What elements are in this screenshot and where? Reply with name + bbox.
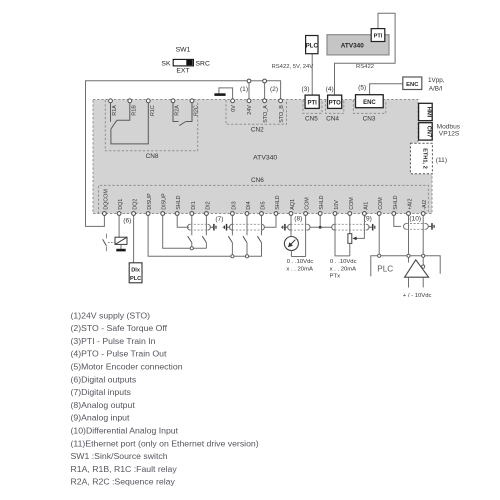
svg-text:R1B: R1B bbox=[132, 105, 138, 116]
svg-text:CN6: CN6 bbox=[251, 177, 264, 184]
wire DQ1 to relay coil bbox=[118, 216, 120, 238]
node on DI4 bus bbox=[245, 255, 248, 258]
svg-text:DI2: DI2 bbox=[205, 201, 211, 209]
DIx PLC box bbox=[129, 263, 142, 283]
relay R2 contact drawing bbox=[173, 103, 179, 122]
terminal SHLD c bbox=[318, 212, 322, 216]
svg-text:R1C: R1C bbox=[150, 105, 156, 116]
wire 24V up to jumper point bbox=[248, 83, 250, 98]
wire COM bbox=[378, 216, 380, 256]
svg-text:CN4: CN4 bbox=[326, 115, 339, 122]
connector CN8 (relay outputs) dashed box bbox=[105, 100, 197, 151]
svg-text:1Vpp,: 1Vpp, bbox=[428, 77, 445, 84]
wire AI1 wiper bbox=[356, 216, 364, 239]
terminal R2C bbox=[190, 99, 194, 103]
svg-text:AQ1: AQ1 bbox=[290, 199, 296, 210]
svg-text:DISUP: DISUP bbox=[162, 193, 168, 210]
svg-text:x . . 20mA: x . . 20mA bbox=[330, 266, 357, 272]
svg-text:(8)Analog output: (8)Analog output bbox=[71, 400, 136, 410]
svg-text:(5)Motor Encoder connection: (5)Motor Encoder connection bbox=[71, 362, 183, 372]
svg-text:RS422: RS422 bbox=[356, 64, 374, 70]
svg-text:(11)Ethernet port (only on Eth: (11)Ethernet port (only on Ethernet driv… bbox=[71, 438, 259, 448]
ATV340 box (second drive) bbox=[327, 35, 389, 55]
wire DISUP to DI3-DI5 common bus bbox=[148, 216, 262, 257]
svg-text:(5): (5) bbox=[358, 85, 366, 92]
svg-text:0V: 0V bbox=[231, 105, 237, 112]
svg-text:10V: 10V bbox=[334, 200, 340, 210]
svg-text:+AI2: +AI2 bbox=[408, 199, 414, 210]
svg-text:HMI: HMI bbox=[425, 107, 431, 118]
wire DI2 bbox=[205, 216, 207, 236]
terminal AI1 bbox=[363, 212, 367, 216]
terminal SHLD a bbox=[175, 212, 179, 216]
wire DI5 bbox=[261, 216, 263, 236]
ground symbol at 0V bbox=[214, 93, 225, 96]
CN7 connector box bbox=[419, 123, 433, 140]
svg-text:ENC: ENC bbox=[406, 82, 419, 88]
terminal STO_A bbox=[263, 99, 267, 103]
wire ENC connector CN3 to encoder bbox=[370, 84, 403, 95]
svg-text:DQCOM: DQCOM bbox=[103, 189, 109, 210]
svg-text:x . . 20mA: x . . 20mA bbox=[286, 266, 313, 272]
PLC box (pulse train source) bbox=[306, 36, 318, 54]
wire PTO connector CN4 to PTI module of second ATV340 bbox=[335, 13, 396, 95]
PTI module on second drive bbox=[371, 29, 385, 42]
terminal DI1 bbox=[190, 212, 194, 216]
wire jumper 24V to STO_A bbox=[249, 80, 265, 82]
svg-text:DQ2: DQ2 bbox=[133, 199, 139, 210]
PLC box (differential analog input) bbox=[371, 256, 440, 276]
svg-text:DI4: DI4 bbox=[246, 201, 252, 209]
terminal COM a bbox=[304, 212, 308, 216]
shielded cable capsule AI2 bbox=[406, 223, 425, 225]
wire DI4 bbox=[246, 216, 248, 236]
node -AI2 on PLC bus bbox=[422, 254, 425, 257]
wire SHLD down bbox=[319, 216, 321, 228]
shield clamp DI3-DI5 bbox=[223, 226, 224, 228]
svg-text:(1): (1) bbox=[240, 86, 248, 93]
shield clamp AQ1 bbox=[281, 226, 282, 228]
terminal R1A bbox=[109, 99, 113, 103]
terminal DISUP b bbox=[161, 212, 165, 216]
svg-text:COM: COM bbox=[378, 197, 384, 210]
svg-text:(2): (2) bbox=[270, 86, 278, 93]
svg-text:ATV340: ATV340 bbox=[341, 42, 364, 49]
terminal DI4 bbox=[245, 212, 249, 216]
wire COM for AQ1 bbox=[305, 216, 307, 257]
svg-text:0 . .10Vdc: 0 . .10Vdc bbox=[287, 259, 314, 265]
potentiometer bbox=[348, 234, 352, 244]
svg-text:(6): (6) bbox=[123, 218, 131, 225]
svg-text:AI1: AI1 bbox=[363, 202, 369, 210]
terminal 0V bbox=[231, 99, 235, 103]
switch DI2 bbox=[202, 236, 206, 242]
svg-text:0 . .10Vdc: 0 . .10Vdc bbox=[330, 259, 357, 265]
terminal DI5 bbox=[260, 212, 264, 216]
shield clamp AI1 bbox=[369, 226, 372, 228]
encoder ENC box bbox=[403, 77, 422, 90]
svg-text:(7)Digital inputs: (7)Digital inputs bbox=[71, 387, 132, 397]
wire 0V to ground bbox=[219, 88, 233, 99]
switch DI4 bbox=[243, 236, 247, 242]
svg-text:ATV340: ATV340 bbox=[253, 154, 277, 161]
terminal COM c bbox=[377, 212, 381, 216]
terminal 10V bbox=[333, 212, 337, 216]
svg-text:R2A, R2C :Sequence relay: R2A, R2C :Sequence relay bbox=[71, 477, 176, 487]
connector CN4 dashed box bbox=[326, 100, 344, 113]
svg-text:(9)Analog input: (9)Analog input bbox=[71, 413, 131, 423]
shielded cable capsule AQ1 bbox=[291, 223, 308, 225]
terminal COM b bbox=[348, 212, 352, 216]
relay coil on DQ1 bbox=[115, 237, 127, 244]
terminal DQCOM bbox=[103, 212, 107, 216]
svg-text:DQ1: DQ1 bbox=[118, 199, 124, 210]
svg-text:SHLD: SHLD bbox=[319, 195, 325, 209]
auxiliary contact linked to coil bbox=[105, 234, 107, 239]
svg-text:(3)PTI - Pulse Train In: (3)PTI - Pulse Train In bbox=[71, 336, 156, 346]
svg-text:SW1 :Sink/Source switch: SW1 :Sink/Source switch bbox=[71, 451, 168, 461]
svg-text:EXT: EXT bbox=[176, 68, 189, 75]
terminal DI2 bbox=[205, 212, 209, 216]
svg-text:24V: 24V bbox=[247, 105, 253, 115]
terminal DISUP a bbox=[146, 212, 150, 216]
svg-text:R2A: R2A bbox=[175, 105, 181, 116]
shielded cable capsule DI1/DI2 bbox=[190, 223, 207, 225]
svg-text:(10)Differential Analog Input: (10)Differential Analog Input bbox=[71, 426, 179, 436]
svg-text:STO_B: STO_B bbox=[279, 105, 285, 123]
svg-text:PTI: PTI bbox=[308, 100, 318, 106]
svg-text:SHLD: SHLD bbox=[393, 195, 399, 209]
svg-text:R1A: R1A bbox=[112, 105, 118, 116]
connector CN6 dashed box bbox=[99, 185, 429, 213]
svg-text:STO_A: STO_A bbox=[263, 105, 269, 123]
svg-text:(6)Digital outputs: (6)Digital outputs bbox=[71, 374, 137, 384]
terminal DQ2 bbox=[132, 212, 136, 216]
shielded cable capsule AI1 bbox=[335, 223, 367, 225]
svg-text:SW1: SW1 bbox=[176, 47, 191, 54]
svg-text:R1A, R1B, R1C :Fault relay: R1A, R1B, R1C :Fault relay bbox=[71, 464, 178, 474]
shield clamp DI1/DI2 bbox=[210, 226, 213, 228]
relay R1 contact drawing bbox=[110, 103, 112, 122]
wire loop DQCOM to 24V/STO jumpers bbox=[86, 81, 250, 227]
svg-text:(1)24V supply (STO): (1)24V supply (STO) bbox=[71, 310, 151, 320]
node COM on PLC bus bbox=[378, 254, 381, 257]
wire cable shield to SHLD bbox=[264, 216, 276, 228]
svg-text:COM: COM bbox=[305, 197, 311, 210]
terminal 24V bbox=[247, 99, 251, 103]
wire DI3 bbox=[231, 216, 233, 236]
ground under relay coil bbox=[116, 249, 125, 252]
svg-text:SHLD: SHLD bbox=[275, 195, 281, 209]
svg-text:PLC: PLC bbox=[377, 265, 393, 274]
svg-text:A/B/I: A/B/I bbox=[429, 86, 443, 93]
wire 10V bbox=[335, 216, 350, 256]
shielded cable capsule DI3-DI5 bbox=[232, 223, 261, 225]
terminal +AI2 bbox=[407, 212, 411, 216]
svg-text:PTI: PTI bbox=[374, 34, 383, 40]
PTO connector box bbox=[328, 95, 342, 108]
wire DQ2 to PLC input bbox=[133, 216, 135, 263]
wire -AI2 bbox=[422, 216, 424, 265]
terminal STO_B bbox=[279, 99, 283, 103]
svg-text:DIx: DIx bbox=[131, 267, 141, 273]
terminal SHLD d bbox=[392, 212, 396, 216]
terminal R1C bbox=[146, 99, 150, 103]
svg-text:(10): (10) bbox=[409, 216, 421, 223]
input node on amplifier slope bbox=[422, 265, 425, 268]
svg-text:ETH1, 2: ETH1, 2 bbox=[422, 148, 428, 169]
switch DI3 bbox=[228, 236, 232, 242]
svg-text:DI3: DI3 bbox=[231, 201, 237, 209]
connector CN2 (STO) dashed box bbox=[226, 100, 287, 124]
terminal DI3 bbox=[231, 212, 235, 216]
svg-text:SRC: SRC bbox=[196, 60, 210, 67]
svg-text:R2C: R2C bbox=[194, 105, 200, 116]
amplifier output legs bbox=[408, 277, 410, 287]
svg-text:SK: SK bbox=[161, 60, 171, 67]
terminal DQ1 bbox=[117, 212, 121, 216]
svg-text:-AI2: -AI2 bbox=[422, 200, 428, 210]
connector CN3 dashed box bbox=[353, 100, 385, 113]
wire DISUP to DI1-DI2 common bus bbox=[163, 216, 207, 249]
junction SHLD bbox=[319, 226, 322, 229]
wire SHLD to AI2 cable shield bbox=[394, 216, 401, 227]
differential amplifier triangle bbox=[405, 260, 429, 277]
node +AI2 on PLC bus bbox=[407, 254, 410, 257]
jumper connection point above STO_A bbox=[263, 79, 267, 83]
svg-text:CN3: CN3 bbox=[363, 115, 376, 122]
PTI connector box bbox=[305, 95, 319, 108]
svg-text:CN8: CN8 bbox=[146, 153, 159, 160]
svg-text:RS422, 5V, 24V: RS422, 5V, 24V bbox=[272, 64, 314, 70]
wire jumper STO_A to STO_B bbox=[265, 81, 281, 99]
wire COM to potentiometer bbox=[349, 216, 351, 234]
wire AQ1 to meter bbox=[290, 216, 292, 236]
terminal R1B bbox=[128, 99, 132, 103]
svg-text:PLC: PLC bbox=[130, 276, 141, 282]
svg-text:(4)PTO - Pulse Train Out: (4)PTO - Pulse Train Out bbox=[71, 349, 168, 359]
drive body (gray region of ATV340 terminal area) bbox=[93, 100, 432, 214]
svg-text:PTx: PTx bbox=[330, 274, 341, 280]
svg-text:SHLD: SHLD bbox=[176, 195, 182, 209]
svg-text:CN5: CN5 bbox=[305, 115, 318, 122]
ENC connector box bbox=[356, 95, 384, 108]
ETH1,2 connector box (dashed) bbox=[410, 143, 432, 174]
svg-text:(3): (3) bbox=[301, 86, 309, 93]
svg-text:(9): (9) bbox=[364, 215, 372, 222]
svg-text:DI1: DI1 bbox=[191, 201, 197, 209]
switch DI5 bbox=[257, 236, 261, 242]
svg-text:PTO: PTO bbox=[329, 100, 342, 106]
svg-text:(2)STO - Safe Torque Off: (2)STO - Safe Torque Off bbox=[71, 323, 168, 333]
wire DI1 bbox=[191, 216, 193, 236]
meter on AQ1 bbox=[284, 237, 298, 251]
node on DI1 bus bbox=[190, 247, 193, 250]
switch DI1 bbox=[188, 236, 192, 242]
wire SHLD to shield of DI1/DI2 cable bbox=[177, 216, 189, 228]
wire PLC to PTI connector CN5 bbox=[311, 54, 313, 95]
wire +AI2 bbox=[408, 216, 410, 263]
terminal -AI2 bbox=[421, 212, 425, 216]
jumper connection point above 24V bbox=[247, 79, 251, 83]
svg-text:CN7: CN7 bbox=[425, 126, 431, 138]
terminal SHLD b bbox=[274, 212, 278, 216]
terminal R2A bbox=[171, 99, 175, 103]
shield clamp AI2 bbox=[428, 225, 431, 227]
svg-text:PLC: PLC bbox=[306, 43, 319, 49]
svg-text:DI5: DI5 bbox=[261, 201, 267, 209]
svg-text:CN2: CN2 bbox=[251, 126, 264, 133]
svg-text:DISUP: DISUP bbox=[147, 193, 153, 210]
svg-text:ENC: ENC bbox=[363, 100, 376, 106]
svg-text:(4): (4) bbox=[326, 86, 334, 93]
HMI connector box bbox=[419, 103, 433, 120]
wire STO_A up to jumper point bbox=[264, 83, 266, 98]
svg-text:(11): (11) bbox=[436, 157, 447, 164]
svg-text:(8): (8) bbox=[294, 215, 302, 222]
node on DI3 bus bbox=[231, 255, 234, 258]
svg-text:VP12S: VP12S bbox=[439, 130, 460, 137]
terminal AQ1 bbox=[289, 212, 293, 216]
svg-text:(7): (7) bbox=[215, 216, 223, 223]
legend text block bbox=[71, 310, 259, 486]
connector CN5 dashed box bbox=[303, 100, 322, 113]
wire shield bus AQ1/AI1 bbox=[310, 226, 332, 228]
svg-text:+ / - 10Vdc: + / - 10Vdc bbox=[403, 293, 432, 299]
svg-text:COM: COM bbox=[349, 197, 355, 210]
